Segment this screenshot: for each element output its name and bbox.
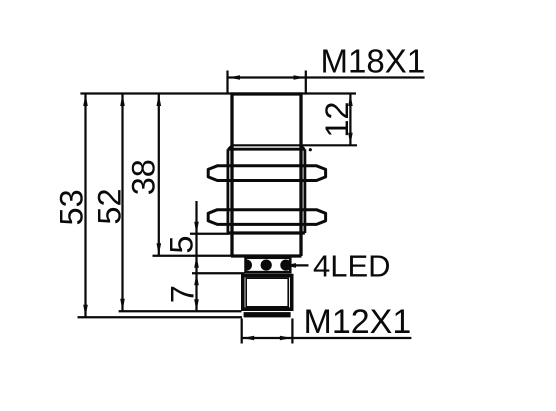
extension line for dim 53 (connector thread end level): [78, 316, 243, 318]
sensor body: left outline of cylindrical housing: [230, 94, 233, 256]
dimension line 53 (vertical, far left): [84, 94, 86, 318]
M18 thread: bottom edge: [228, 231, 305, 234]
M12 connector thread band (solid black): [244, 312, 291, 317]
extension line for dim 7 (LED band bottom level): [192, 272, 245, 274]
dimension line 52 (vertical): [121, 94, 123, 312]
sensor body: top face edge: [231, 92, 303, 95]
arrowhead top of dim 7: [194, 273, 199, 285]
M18 thread: left outline: [226, 149, 229, 233]
arrowhead top of dim 38: [157, 94, 162, 106]
M12 connector body outer outline: [243, 276, 292, 310]
LED dot 1 (clipped at band edge): [241, 260, 252, 271]
arrowhead of 4LED leader: [284, 263, 296, 268]
arrowhead top of dim 12: [348, 94, 353, 106]
extension line right for M12X1: [291, 319, 293, 344]
edge line at bottom of smooth section (also extension line for dim 12): [231, 144, 357, 146]
M12 connector body inner outline: [246, 278, 288, 307]
LED dot 2: [261, 260, 272, 271]
arrowhead bottom of dim 7: [194, 299, 199, 311]
arrowhead left of M18X1 dimension: [228, 75, 240, 80]
hex nut 1 (upper mounting nut): [208, 166, 325, 181]
svg-text:38: 38: [126, 159, 162, 195]
arrowhead bottom of dim 12: [348, 133, 353, 145]
arrowhead right of M12X1 dimension: [280, 336, 292, 341]
hex nut 2 (lower mounting nut): [208, 210, 325, 225]
dimension line 38 (vertical): [158, 94, 160, 256]
svg-text:7: 7: [164, 285, 200, 303]
dimension line M12X1 (with leader under text): [242, 337, 412, 339]
svg-text:M18X1: M18X1: [321, 43, 426, 80]
chamfer left at thread start: [228, 145, 232, 149]
svg-text:4LED: 4LED: [313, 249, 391, 284]
svg-text:M12X1: M12X1: [304, 303, 412, 341]
LED dot 3: [280, 260, 291, 271]
arrowhead upper (outside) of dim 5: [194, 222, 199, 234]
LED indicator band: [246, 258, 291, 273]
M18 thread: right outline: [303, 149, 306, 233]
arrowhead right of M18X1 dimension: [294, 75, 306, 80]
arrowhead bottom of dim 53: [83, 305, 88, 317]
arrowhead bottom of dim 38: [157, 243, 162, 255]
extension line for dim 5 (thread bottom level): [190, 233, 229, 235]
svg-text:12: 12: [319, 102, 355, 138]
arrowhead bottom of dim 52: [120, 299, 125, 311]
dimension line M18X1 (with leader under text): [227, 76, 425, 78]
extension stub left for M18X1: [226, 71, 228, 94]
leader line for 4LED label: [284, 264, 309, 266]
sensor body: bottom edge above LED band: [231, 254, 302, 257]
extension line left for M12X1: [241, 319, 243, 344]
arrowhead top of dim 52: [120, 94, 125, 106]
arrowhead lower (outside) of dim 5: [194, 256, 199, 268]
dimension line 12 (vertical, right side): [349, 94, 351, 146]
extension stub right for M18X1: [305, 71, 307, 94]
extension line for dims 38 and 5 (body bottom level): [153, 255, 232, 257]
arrowhead top of dim 53: [83, 94, 88, 106]
svg-text:5: 5: [164, 236, 200, 254]
extension line for dims 52 and 7 (connector bottom level): [119, 310, 242, 312]
arrowhead left of M12X1 dimension: [242, 336, 254, 341]
top extension line (datum for dims 53 / 52 / 38 / 12): [80, 92, 356, 94]
shared dimension line for dims 5 and 7 (vertical): [195, 201, 197, 311]
chamfer right at thread start: [301, 145, 305, 149]
M18 thread: top edge: [228, 148, 305, 151]
sensor body: right outline of cylindrical housing: [299, 94, 302, 256]
stray ink dot near thread top right: [309, 148, 312, 151]
svg-text:52: 52: [91, 188, 127, 224]
svg-text:53: 53: [53, 189, 89, 225]
